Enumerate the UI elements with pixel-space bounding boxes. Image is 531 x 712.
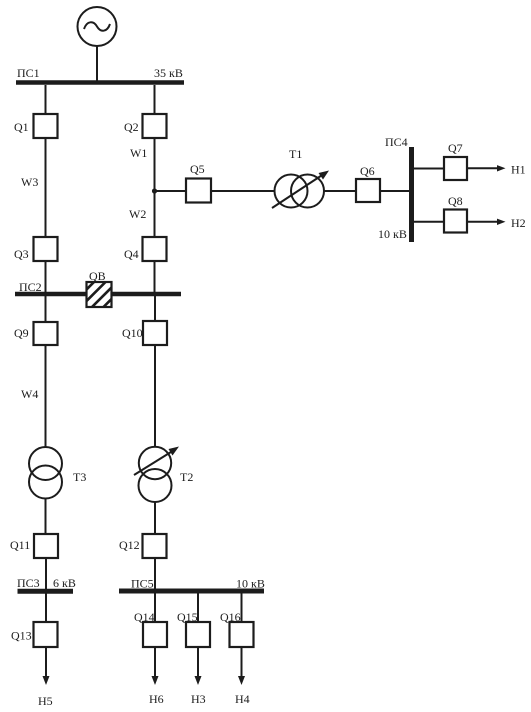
svg-text:Т1: Т1	[289, 147, 302, 161]
svg-text:ПС1: ПС1	[17, 66, 40, 80]
svg-text:ПС4: ПС4	[385, 135, 408, 149]
svg-text:Q5: Q5	[190, 162, 205, 176]
svg-text:Т2: Т2	[180, 470, 193, 484]
svg-text:Q15: Q15	[177, 610, 198, 624]
svg-text:Q14: Q14	[134, 610, 155, 624]
svg-text:Q4: Q4	[124, 247, 139, 261]
svg-text:Q8: Q8	[448, 194, 463, 208]
svg-text:Q1: Q1	[14, 120, 29, 134]
svg-text:ПС3: ПС3	[17, 576, 40, 590]
svg-text:W2: W2	[129, 207, 146, 221]
svg-text:Q16: Q16	[220, 610, 241, 624]
svg-text:Н5: Н5	[38, 694, 53, 708]
svg-text:Н3: Н3	[191, 692, 206, 706]
svg-text:Q11: Q11	[10, 538, 30, 552]
svg-text:6 кВ: 6 кВ	[53, 576, 76, 590]
svg-text:W4: W4	[21, 387, 38, 401]
svg-text:Q10: Q10	[122, 326, 143, 340]
svg-text:35 кВ: 35 кВ	[154, 66, 183, 80]
svg-text:Q3: Q3	[14, 247, 29, 261]
svg-text:Q9: Q9	[14, 326, 29, 340]
svg-text:W3: W3	[21, 175, 38, 189]
svg-text:ПС5: ПС5	[131, 577, 154, 591]
svg-text:Q7: Q7	[448, 141, 463, 155]
svg-text:Н1: Н1	[511, 163, 526, 177]
svg-text:10 кВ: 10 кВ	[378, 227, 407, 241]
svg-text:Q2: Q2	[124, 120, 139, 134]
svg-text:10 кВ: 10 кВ	[236, 577, 265, 591]
svg-text:Т3: Т3	[73, 470, 86, 484]
svg-text:Q6: Q6	[360, 164, 375, 178]
svg-text:Н4: Н4	[235, 692, 250, 706]
svg-text:Н6: Н6	[149, 692, 164, 706]
svg-text:QB: QB	[89, 269, 106, 283]
svg-text:Q12: Q12	[119, 538, 140, 552]
svg-text:W1: W1	[130, 146, 147, 160]
svg-text:Q13: Q13	[11, 629, 32, 643]
svg-text:Н2: Н2	[511, 216, 526, 230]
svg-text:ПС2: ПС2	[19, 280, 42, 294]
